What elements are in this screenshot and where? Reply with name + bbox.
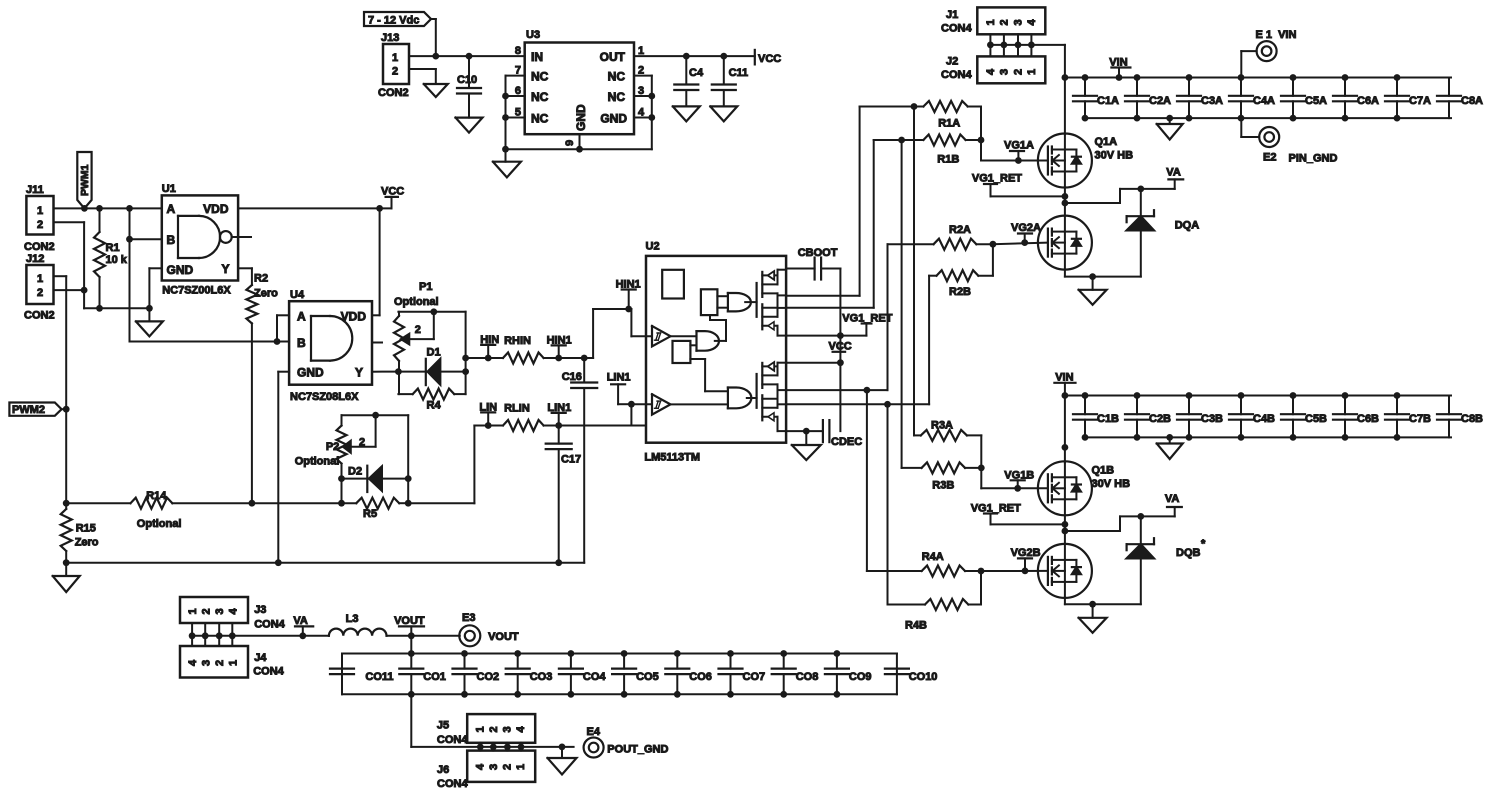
svg-text:R5: R5 — [363, 508, 377, 520]
labels P2 Optional — [295, 441, 340, 468]
node CBOOT bottom — [837, 332, 844, 339]
capacitor CDEC — [823, 420, 862, 448]
connector J5 — [437, 714, 535, 746]
svg-text:1: 1 — [187, 608, 199, 614]
node Q1B source RET — [1062, 521, 1069, 528]
capacitor C7B — [1385, 396, 1431, 438]
connector J4 — [180, 646, 285, 678]
wire w5 VCC — [786, 362, 840, 364]
U2 wire ANDmid out to shifter — [710, 315, 726, 341]
svg-text:CBOOT: CBOOT — [798, 247, 838, 259]
ground at J13 pin2 — [424, 84, 448, 97]
svg-text:VCC: VCC — [829, 340, 852, 352]
node R4B branch — [884, 401, 891, 408]
wire U1 GND pin — [149, 268, 161, 308]
resistor RHIN — [503, 335, 544, 363]
svg-text:NC: NC — [531, 112, 549, 126]
node C6A top — [1342, 74, 1349, 81]
svg-text:CON4: CON4 — [941, 23, 972, 35]
node R3A-R3B join — [978, 465, 985, 472]
svg-text:CON4: CON4 — [253, 666, 284, 678]
resistor R1B — [874, 135, 981, 166]
wire R3B feed — [901, 140, 903, 468]
svg-text:R3B: R3B — [932, 479, 954, 491]
svg-text:*: * — [1201, 538, 1206, 550]
transistor Q1A — [1038, 134, 1133, 188]
pin E1 — [1241, 29, 1296, 78]
resistor R1A — [860, 101, 981, 130]
label VIN B — [1054, 372, 1075, 463]
svg-text:J11: J11 — [26, 184, 44, 196]
capacitor C6B — [1333, 396, 1379, 438]
pin E2 — [1241, 118, 1337, 164]
node R1A-R1B join — [978, 137, 985, 144]
pin E4 — [584, 726, 669, 758]
svg-text:J3: J3 — [254, 604, 266, 616]
node CO1 bottom — [408, 691, 415, 698]
wire gnd net y308 — [84, 290, 149, 308]
node U3 pin9 — [576, 146, 583, 153]
svg-text:GND: GND — [297, 366, 324, 380]
svg-text:4: 4 — [187, 659, 199, 666]
node U4 GND rail — [275, 559, 282, 566]
resistor R2B — [929, 244, 993, 298]
svg-text:Q1A: Q1A — [1095, 136, 1118, 148]
node CO2 top — [461, 650, 468, 657]
svg-text:NC: NC — [608, 90, 626, 104]
node R4A right — [978, 568, 985, 575]
svg-text:C3A: C3A — [1201, 95, 1223, 107]
node CO1 top — [408, 650, 415, 657]
svg-text:R1: R1 — [106, 242, 120, 254]
wire w2 to R1A — [786, 107, 860, 296]
U2 wire buffer1 to AND mid — [671, 335, 697, 337]
svg-text:P1: P1 — [419, 281, 432, 293]
svg-text:10 k: 10 k — [106, 254, 128, 266]
svg-text:Optional: Optional — [394, 296, 439, 308]
ground below U2 — [792, 431, 821, 460]
node C6B top — [1342, 392, 1349, 399]
svg-text:C2B: C2B — [1149, 413, 1171, 425]
svg-text:2: 2 — [1013, 69, 1025, 75]
wire Q1B source to mid — [1064, 515, 1066, 544]
pin E3 — [459, 612, 519, 646]
svg-text:RHIN: RHIN — [504, 335, 531, 347]
svg-text:CO6: CO6 — [689, 671, 712, 683]
node C3B top — [1186, 392, 1193, 399]
wire LIN line — [474, 425, 503, 427]
node D1 line left — [395, 368, 402, 375]
connector J6 — [437, 751, 535, 790]
node C11 top — [720, 53, 727, 60]
svg-text:B: B — [297, 336, 306, 350]
label LIN1 — [547, 402, 571, 426]
svg-text:2: 2 — [488, 726, 500, 732]
svg-text:CON4: CON4 — [437, 778, 468, 790]
svg-text:PWM1: PWM1 — [79, 164, 91, 196]
svg-text:E2: E2 — [1263, 152, 1276, 164]
svg-text:GND: GND — [167, 263, 194, 277]
node U4 VDD branch — [376, 205, 383, 212]
node A bank gnd — [1166, 115, 1173, 122]
svg-text:R4: R4 — [427, 400, 442, 412]
svg-text:IN: IN — [531, 50, 543, 64]
svg-text:2: 2 — [999, 19, 1011, 25]
U2 FET top-N — [762, 293, 786, 335]
node P2 wiper top — [372, 412, 379, 419]
svg-text:J2: J2 — [946, 56, 958, 68]
node gnd B stub — [1089, 601, 1096, 608]
node U3 pin4 — [648, 114, 655, 121]
J1-J2 strap — [987, 34, 1035, 56]
svg-text:VG2B: VG2B — [1011, 547, 1041, 559]
svg-text:C8A: C8A — [1461, 95, 1483, 107]
inductor L3 — [329, 613, 387, 636]
svg-text:7 - 12 Vdc: 7 - 12 Vdc — [368, 15, 419, 27]
svg-text:VDD: VDD — [341, 310, 367, 324]
capacitor C7A — [1385, 78, 1431, 119]
wire w3 to R1B — [786, 140, 874, 308]
resistor R4A — [867, 551, 981, 577]
label HIN — [480, 334, 499, 358]
node CO7 bottom — [727, 691, 734, 698]
bottom ground rail — [66, 562, 584, 564]
U3 GND bottom label — [574, 104, 588, 131]
capacitor C5B — [1281, 396, 1327, 438]
J3-J4 strap — [189, 623, 236, 646]
svg-text:4: 4 — [475, 763, 487, 770]
node CO4 bottom — [568, 691, 575, 698]
node B bank gnd — [1166, 434, 1173, 441]
node C4A top — [1238, 74, 1245, 81]
svg-text:NC7SZ00L6X: NC7SZ00L6X — [162, 284, 231, 296]
node R2 bottom — [249, 500, 256, 507]
svg-text:U4: U4 — [290, 289, 305, 301]
U2 AND gate middle — [697, 331, 720, 351]
svg-text:3: 3 — [488, 764, 500, 770]
power VCC above U1 — [381, 186, 404, 209]
svg-text:VOUT: VOUT — [488, 631, 519, 643]
label VG1B — [1004, 469, 1034, 488]
svg-text:LIN1: LIN1 — [607, 372, 631, 384]
wire J13 pin2 to ground — [409, 69, 436, 84]
node E4 gnd — [559, 744, 566, 751]
svg-text:J6: J6 — [437, 764, 449, 776]
node CO8 top — [780, 650, 787, 657]
svg-text:Zero: Zero — [254, 288, 278, 300]
label HIN1 at U2 — [616, 279, 641, 310]
node C4 top — [683, 53, 690, 60]
svg-text:C1A: C1A — [1097, 95, 1119, 107]
resistor R5 — [342, 498, 409, 520]
IC U4 box — [289, 289, 372, 403]
svg-text:D2: D2 — [348, 466, 362, 478]
U3 pin9 stub — [579, 134, 581, 149]
capacitor CO8 — [772, 654, 819, 695]
svg-text:CO10: CO10 — [909, 671, 938, 683]
svg-text:RLIN: RLIN — [504, 402, 530, 414]
svg-text:R2: R2 — [254, 273, 268, 285]
resistor R3B — [902, 462, 982, 491]
node R15 bottom — [63, 559, 70, 566]
label HIN1 — [547, 334, 572, 358]
svg-text:GND: GND — [600, 112, 627, 126]
node C3A bottom — [1186, 115, 1193, 122]
capacitor CO3 — [506, 654, 553, 695]
svg-text:R14: R14 — [146, 490, 167, 502]
svg-text:NC7SZ08L6X: NC7SZ08L6X — [290, 391, 359, 403]
U4 pin labels — [297, 310, 366, 380]
label VIN A — [1109, 57, 1130, 78]
U2 FET pair top gate — [755, 283, 757, 317]
node VOUT stub — [408, 632, 415, 639]
node Q1A source RET — [1062, 193, 1069, 200]
svg-text:DQA: DQA — [1175, 220, 1200, 232]
svg-text:B: B — [167, 233, 176, 247]
svg-text:C10: C10 — [457, 74, 477, 86]
U3 pin numbers — [515, 45, 645, 146]
node PWM2 tip — [63, 406, 70, 413]
capacitor C2A — [1125, 78, 1171, 119]
svg-text:CO1: CO1 — [423, 671, 446, 683]
node CO9 bottom — [834, 691, 841, 698]
svg-text:VA: VA — [1165, 493, 1180, 505]
connector J2 — [941, 56, 1045, 84]
node C10 top junction — [466, 53, 473, 60]
resistor R15 — [61, 503, 99, 563]
node R1B-R3B tap — [898, 137, 905, 144]
ground A bank — [1157, 118, 1183, 139]
trimmer P2 — [337, 415, 376, 503]
wire J11 pin2 down — [54, 222, 85, 290]
connector J1 — [941, 7, 1045, 34]
U3 bottom wire — [506, 148, 652, 150]
wire U4 A tie — [277, 315, 289, 341]
resistor R4 — [398, 389, 465, 412]
wire w1 CBOOT — [786, 268, 815, 270]
svg-text:R3A: R3A — [931, 419, 953, 431]
svg-text:C4B: C4B — [1253, 413, 1275, 425]
node VIN rail A left — [1062, 74, 1069, 81]
node C1A top — [1082, 74, 1089, 81]
svg-text:2: 2 — [502, 764, 514, 770]
wire L3 to E3 — [387, 635, 460, 637]
svg-text:4: 4 — [515, 726, 527, 733]
connector J11 — [24, 184, 55, 253]
node mid A — [1062, 200, 1069, 207]
svg-text:E4: E4 — [587, 726, 601, 738]
node R1 top — [96, 205, 103, 212]
svg-text:CO4: CO4 — [583, 671, 607, 683]
node HIN1 U2 stub — [625, 306, 632, 313]
J5-J6 strap — [477, 743, 524, 751]
label VA B — [1165, 493, 1182, 507]
wire w8 CDEC — [786, 430, 823, 432]
wire U1 B input — [130, 208, 162, 239]
capacitor CO10 — [885, 669, 938, 683]
diode DQA — [1127, 189, 1200, 277]
svg-text:C3B: C3B — [1201, 413, 1223, 425]
node CO6 bottom — [674, 691, 681, 698]
svg-text:NC: NC — [608, 70, 626, 84]
transistor Q2A — [1038, 216, 1092, 270]
wire LIN up to U2 — [618, 404, 652, 425]
ground B bank — [1157, 437, 1183, 459]
node D1 line right — [462, 368, 469, 375]
wire HIN line — [466, 357, 503, 359]
ground below U3 — [493, 149, 521, 177]
wire mid B to VA — [1065, 507, 1175, 531]
svg-text:CO5: CO5 — [636, 671, 659, 683]
wire Q1A gate line — [981, 160, 1047, 162]
svg-text:VIN: VIN — [1278, 29, 1296, 41]
U2 buffer upper — [652, 326, 671, 346]
node R1 bottom — [96, 305, 103, 312]
connector J13 — [378, 32, 409, 99]
wire mid A to VA — [1065, 179, 1175, 203]
wire J5 strap to E4 — [521, 746, 574, 748]
node R2A-R2B join — [990, 241, 997, 248]
node P1 wiper top — [430, 308, 437, 315]
node C6A bottom — [1342, 115, 1349, 122]
svg-text:CO8: CO8 — [796, 671, 819, 683]
wire Q2B source down — [1065, 598, 1141, 604]
svg-text:R1B: R1B — [937, 154, 959, 166]
svg-text:CON2: CON2 — [24, 241, 55, 253]
svg-text:1: 1 — [37, 273, 43, 285]
capacitor C3A — [1177, 78, 1223, 119]
svg-text:VCC: VCC — [381, 186, 404, 198]
capacitor C4 — [674, 56, 704, 106]
capacitor C5A — [1281, 78, 1327, 119]
U2 buffer lower — [652, 394, 671, 414]
node U1 B branch — [126, 205, 133, 212]
VCC tap at U3 OUT — [755, 50, 781, 65]
svg-text:R1A: R1A — [938, 118, 960, 130]
capacitor C4B — [1229, 396, 1275, 438]
node VG2B stub — [1022, 568, 1029, 575]
U3 pin labels right — [600, 50, 628, 126]
connector J3 — [180, 597, 286, 630]
wire Q1B gate line — [981, 468, 1047, 488]
wire J11 pin1 to U1 A — [54, 207, 162, 209]
node U3 left gnd — [502, 146, 509, 153]
wire Q2A gate line — [993, 243, 1047, 245]
P1 block right vertical — [465, 312, 467, 394]
labels P1 Optional — [394, 281, 439, 308]
capacitor C4A — [1229, 78, 1275, 119]
capacitor CO4 — [559, 654, 607, 695]
resistor R2A — [888, 224, 993, 250]
node U3 pin6 — [502, 93, 509, 100]
svg-text:Y: Y — [355, 366, 363, 380]
wire LIN1 segment — [544, 425, 646, 427]
node R1A-R3A tap — [911, 103, 918, 110]
svg-text:VG1A: VG1A — [1004, 140, 1034, 152]
U2 FET bot-N — [762, 384, 786, 431]
svg-text:1: 1 — [228, 660, 240, 666]
U2 wire AND low out — [747, 397, 757, 399]
capacitor C3B — [1177, 396, 1223, 438]
transistor Q1B — [1038, 461, 1130, 515]
wire U4 GND drop — [278, 372, 289, 563]
capacitor CO9 — [825, 654, 872, 695]
svg-text:A: A — [297, 310, 306, 324]
resistor R2 — [246, 273, 278, 504]
VIN B cap bank rails — [1065, 396, 1451, 438]
trimmer P1 — [394, 312, 434, 394]
wire w4 VG1_RET — [786, 335, 866, 337]
wire J5 strap to bank — [411, 694, 480, 747]
capacitor CO11 — [330, 669, 394, 683]
svg-text:C17: C17 — [561, 454, 581, 466]
wire R4A drop — [866, 390, 868, 571]
wire R3A join — [980, 435, 982, 468]
svg-text:J4: J4 — [254, 652, 267, 664]
U2 FET bot-P — [762, 362, 786, 388]
wire U4 Y to D1 — [372, 371, 398, 373]
capacitor C10 — [457, 56, 481, 118]
svg-text:E 1: E 1 — [1256, 29, 1273, 41]
svg-text:DQB: DQB — [1176, 547, 1201, 559]
svg-text:PIN_GND: PIN_GND — [1289, 153, 1338, 165]
svg-text:C4A: C4A — [1253, 95, 1275, 107]
svg-text:3: 3 — [999, 69, 1011, 75]
label VCC at U2 — [829, 340, 852, 352]
node U1 GND junction — [146, 305, 153, 312]
node U1 B — [126, 236, 133, 243]
svg-text:4: 4 — [1026, 19, 1038, 26]
svg-text:C4: C4 — [689, 67, 704, 79]
node C7A top — [1394, 74, 1401, 81]
node VG1A stub — [1015, 157, 1022, 164]
U2 wire rect mid to AND low — [690, 359, 728, 391]
svg-text:J1: J1 — [946, 9, 958, 21]
svg-text:E3: E3 — [462, 612, 475, 624]
node C2B bottom — [1134, 434, 1141, 441]
wire U4 B input — [277, 341, 289, 343]
svg-text:CON2: CON2 — [24, 310, 55, 322]
pot P2 top wire — [342, 414, 409, 416]
label VG1A — [1004, 140, 1034, 161]
IC U2 box — [644, 241, 786, 464]
node C16 top — [581, 355, 588, 362]
svg-text:CON4: CON4 — [254, 618, 285, 630]
label VA A — [1166, 166, 1183, 179]
node mid B — [1062, 528, 1069, 535]
wire J1 strap to VIN rail — [1031, 45, 1065, 134]
node CO7 top — [727, 650, 734, 657]
svg-text:1: 1 — [515, 764, 527, 770]
svg-text:CON4: CON4 — [437, 734, 468, 746]
svg-text:CO11: CO11 — [365, 671, 393, 683]
capacitor C1B — [1073, 396, 1119, 438]
wire HIN1 segment — [544, 357, 594, 359]
node CO3 bottom — [514, 691, 521, 698]
svg-text:30V HB: 30V HB — [1092, 478, 1131, 490]
svg-text:Zero: Zero — [75, 537, 99, 549]
wire Q2B gate line — [981, 570, 1047, 572]
svg-text:C7B: C7B — [1409, 413, 1431, 425]
svg-text:P2: P2 — [326, 441, 339, 453]
label VG1_RET at U2 — [842, 313, 892, 336]
node R4A branch — [864, 387, 871, 394]
IC U1 box — [162, 183, 238, 297]
resistor R1 — [94, 208, 128, 308]
U3 pins 5-7 strap — [506, 76, 525, 150]
node CDEC gnd — [803, 428, 810, 435]
wire w7 to R2B — [786, 276, 929, 405]
